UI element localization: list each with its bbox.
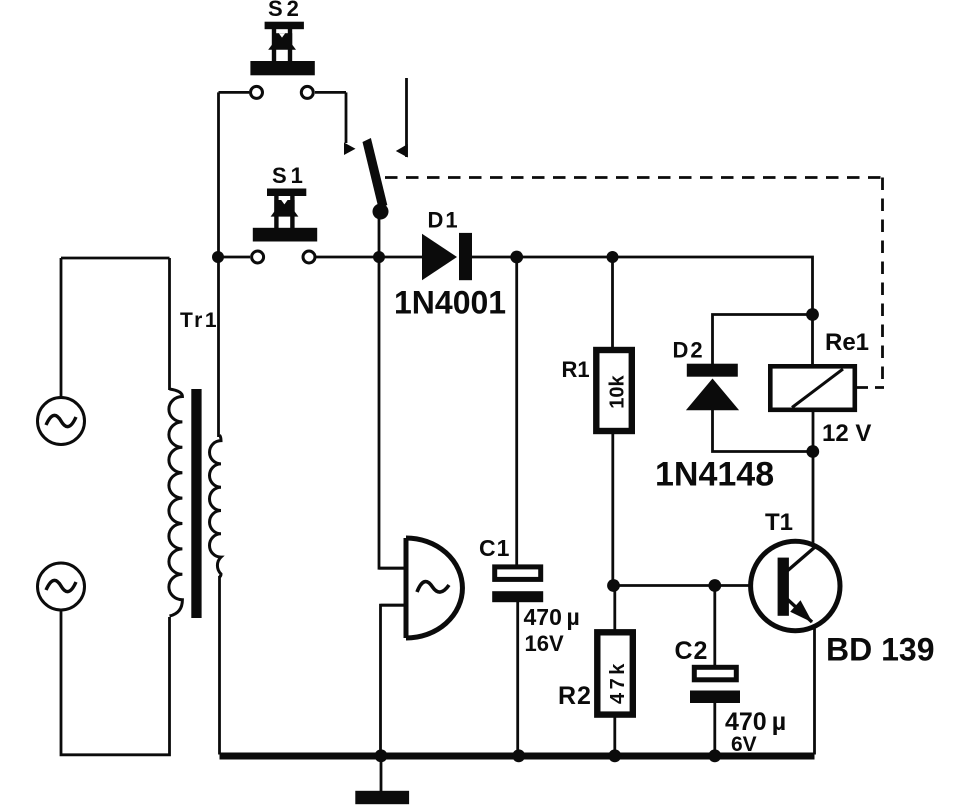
svg-text:S2: S2: [268, 0, 303, 21]
pushbutton S2: [250, 22, 314, 76]
wire: left vertical from S2 row down to transformer secondary top: [217, 92, 220, 437]
svg-text:1N4148: 1N4148: [655, 456, 774, 494]
wire: buzzer bottom lead down to ground rail: [381, 605, 407, 754]
buzzer bottom lead: [381, 604, 407, 607]
wire: top rail from D1 cathode to right corner: [471, 257, 813, 364]
contact S2 right: [301, 86, 313, 98]
transformer core: [191, 389, 201, 618]
mechanical link dashed horizontal: [385, 176, 883, 179]
wire: R2 bottom down to ground rail: [613, 714, 616, 755]
wire: D1 junction down to C1 top: [515, 257, 518, 565]
contact S2 left: [251, 86, 263, 98]
svg-text:47k: 47k: [607, 660, 629, 704]
wire: AC loop top horizontal: [61, 257, 170, 260]
node: S1-row / left vertical: [212, 251, 224, 263]
wire: transistor emitter down to ground rail: [813, 623, 816, 755]
throw arrow left: [344, 143, 356, 156]
wire: primary top vertical: [168, 258, 171, 390]
pushbutton S1: [253, 189, 317, 242]
svg-text:BD 139: BD 139: [826, 632, 935, 668]
ground: [380, 756, 383, 792]
wire: base row horizontal: [613, 584, 751, 587]
wire: left throw vertical: [345, 92, 348, 143]
svg-text:Tr1: Tr1: [180, 309, 219, 332]
svg-text:S1: S1: [272, 163, 307, 188]
node: rail / C2 bottom: [708, 749, 721, 762]
node: rail / C1: [510, 251, 523, 264]
wire: right throw vertical (open): [405, 78, 408, 157]
wire: vertical down to buzzer top lead: [379, 257, 406, 568]
buzzer top lead: [379, 567, 406, 570]
switch arm (changeover contact of relay): [344, 138, 408, 220]
node: S1-row / arm pole: [373, 251, 385, 263]
diode D2: [686, 364, 739, 411]
AC source 1: [38, 398, 85, 445]
svg-text:T1: T1: [765, 509, 793, 536]
svg-text:C1: C1: [479, 535, 510, 561]
wire: C2 branch down from base row: [713, 586, 716, 667]
svg-text:Re1: Re1: [825, 329, 869, 356]
wire: secondary bottom vertical to rail corner: [218, 576, 221, 755]
svg-text:C2: C2: [675, 637, 709, 665]
node: rail / C1 bottom: [512, 749, 525, 762]
AC source 2: [38, 563, 85, 610]
node: relay top / D2: [806, 308, 819, 321]
wire: C1 bottom down to ground rail: [516, 601, 519, 755]
wire: S1 row left segment: [219, 256, 251, 259]
wire: R1 bottom to base row: [611, 433, 614, 586]
wire: C2 bottom down to ground rail: [713, 703, 716, 755]
diode D1: [422, 233, 472, 280]
wire: S1 row from right contact to D1 anode: [315, 256, 423, 259]
resistor R2: [597, 632, 633, 714]
wire: base row junction down to R2 top: [613, 586, 616, 632]
node: base row / C2: [708, 579, 721, 592]
wire: D2 top connector: [713, 315, 813, 365]
svg-text:10k: 10k: [607, 374, 629, 408]
wire: AC loop left vertical upper: [60, 258, 63, 398]
node: base row / R1-R2: [607, 579, 620, 592]
svg-text:470 µ: 470 µ: [524, 604, 580, 630]
throw arrow right: [396, 144, 408, 158]
svg-text:6V: 6V: [731, 733, 757, 756]
wire: AC loop left vertical lower: [61, 610, 170, 755]
svg-text:470 µ: 470 µ: [725, 708, 786, 736]
svg-text:R1: R1: [562, 357, 590, 382]
mechanical link stub to relay: [857, 386, 884, 389]
ground rail (thick bottom bus): [220, 753, 815, 760]
wire: switch arm pole down to S1 row: [378, 210, 381, 257]
capacitor C1: [492, 567, 543, 602]
wire: S2 row left stub: [219, 91, 250, 94]
svg-text:12 V: 12 V: [822, 420, 871, 447]
transformer Tr1 primary winding: [169, 389, 183, 616]
capacitor C2: [690, 667, 740, 703]
contact S1 left: [252, 251, 264, 263]
transistor T1: [751, 541, 840, 630]
svg-text:R2: R2: [558, 682, 592, 710]
svg-text:1N4001: 1N4001: [394, 285, 506, 321]
node: relay bottom / D2: [806, 445, 819, 458]
relay Re1: [770, 366, 855, 410]
svg-text:D1: D1: [428, 208, 460, 233]
transformer Tr1 secondary winding: [209, 435, 221, 577]
node: rail / R1: [607, 251, 619, 263]
wire: relay bottom to transistor collector: [812, 412, 815, 548]
node: rail / ground: [375, 749, 388, 762]
svg-text:16V: 16V: [525, 631, 564, 656]
contact S1 right: [303, 251, 315, 263]
wire: D2 bottom connector: [713, 409, 813, 452]
svg-text:D2: D2: [673, 338, 705, 363]
buzzer: [406, 538, 462, 638]
node: rail / R2 bottom: [608, 749, 621, 762]
wire: rail junction down to R1 top: [611, 257, 614, 348]
wire: S2 row right stub to left throw: [315, 91, 346, 94]
resistor R1: [596, 350, 632, 431]
mechanical link dashed vertical: [881, 178, 884, 389]
